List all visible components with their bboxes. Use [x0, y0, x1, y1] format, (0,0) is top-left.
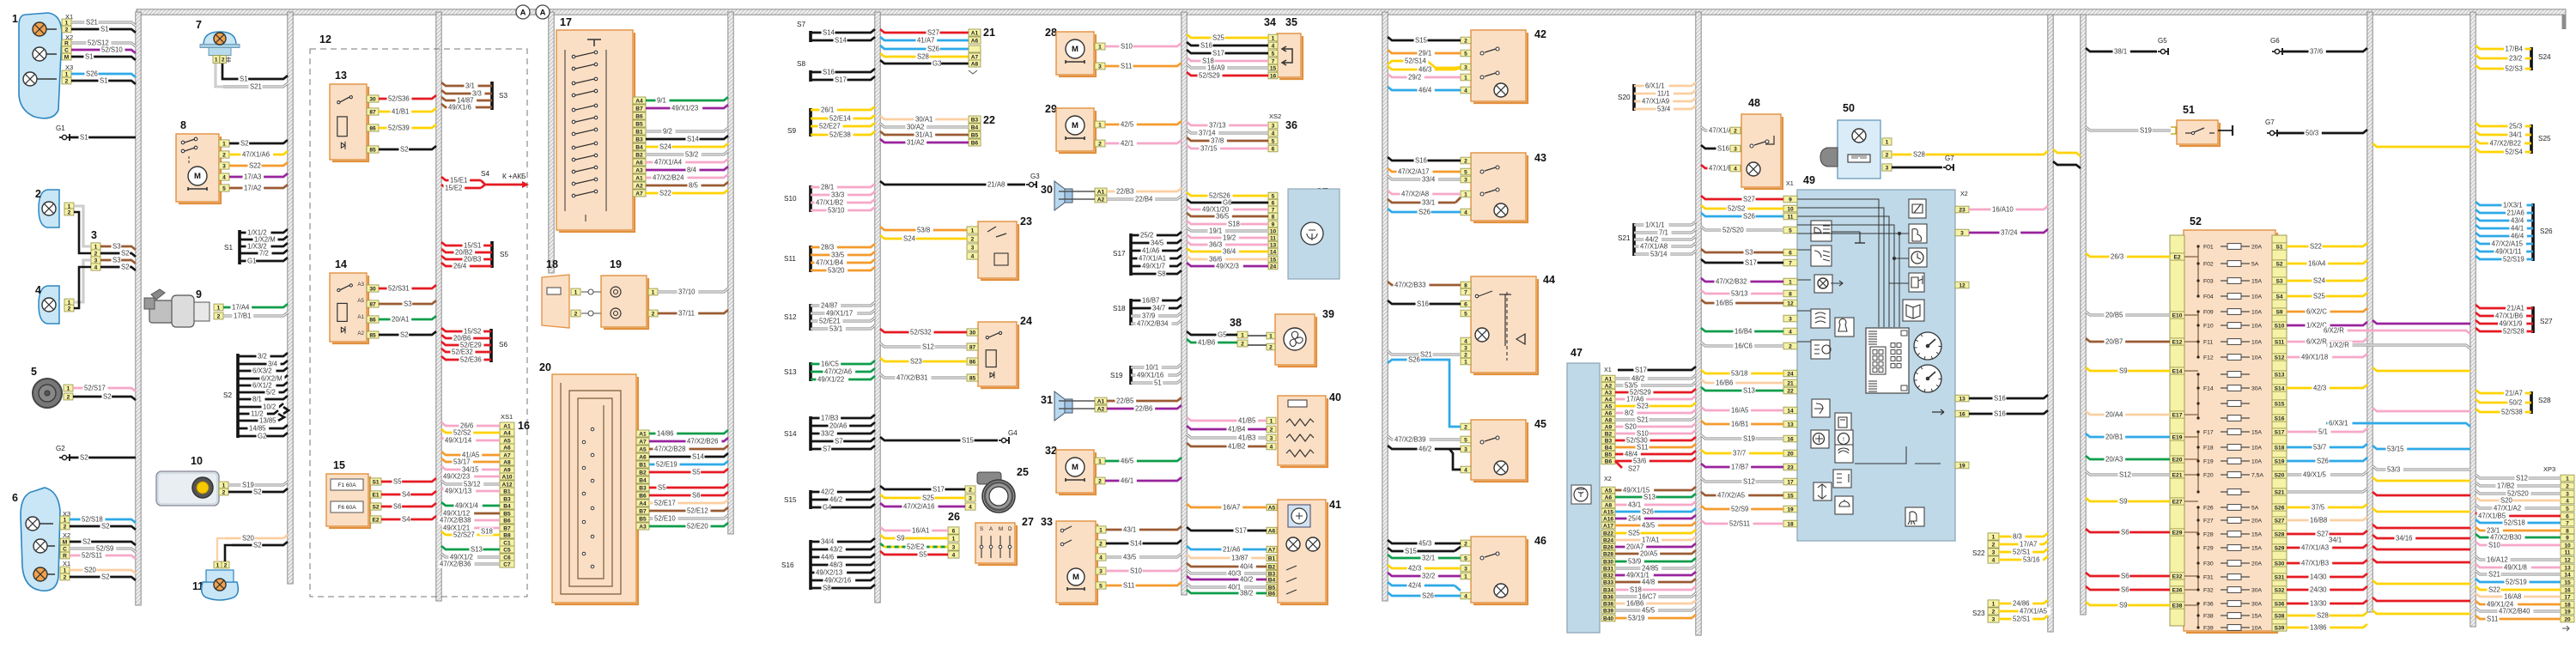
- svg-text:47/X1/A9: 47/X1/A9: [1642, 98, 1669, 106]
- svg-text:X1: X1: [1786, 179, 1794, 187]
- svg-text:25: 25: [1017, 466, 1029, 478]
- svg-text:2: 2: [1098, 141, 1102, 147]
- svg-text:37/11: 37/11: [678, 310, 695, 318]
- svg-text:F11: F11: [2203, 340, 2213, 346]
- svg-text:46/2: 46/2: [1419, 446, 1431, 453]
- svg-text:52/S20: 52/S20: [1722, 227, 1744, 234]
- svg-text:A6: A6: [1605, 494, 1613, 500]
- svg-text:S16: S16: [1417, 300, 1429, 308]
- svg-text:1: 1: [64, 567, 67, 573]
- svg-text:S15: S15: [1405, 548, 1418, 555]
- svg-text:7: 7: [1464, 289, 1467, 295]
- svg-text:34/7: 34/7: [1152, 305, 1165, 312]
- svg-text:11: 11: [2565, 549, 2571, 555]
- svg-text:S25: S25: [922, 494, 935, 502]
- svg-text:4: 4: [1789, 329, 1792, 335]
- svg-text:47/X2/A17: 47/X2/A17: [1398, 168, 1429, 176]
- svg-text:M: M: [1072, 121, 1078, 130]
- svg-text:26: 26: [948, 511, 960, 523]
- svg-text:47/X1/A3: 47/X1/A3: [2301, 544, 2329, 552]
- svg-text:20A: 20A: [2251, 561, 2263, 567]
- svg-text:53/10: 53/10: [828, 207, 845, 215]
- svg-text:47/X1/B2: 47/X1/B2: [816, 199, 843, 207]
- svg-text:16/A1: 16/A1: [912, 527, 929, 535]
- svg-text:4: 4: [1464, 593, 1467, 599]
- svg-text:9/1: 9/1: [657, 97, 666, 105]
- svg-text:46/1: 46/1: [1121, 477, 1133, 485]
- svg-text:S28: S28: [2317, 612, 2329, 620]
- svg-text:B2: B2: [635, 152, 643, 158]
- svg-text:52/S28: 52/S28: [2503, 328, 2524, 336]
- svg-text:17/B1: 17/B1: [234, 312, 251, 320]
- svg-text:G7: G7: [2265, 118, 2275, 126]
- svg-text:46/5: 46/5: [1121, 458, 1134, 465]
- svg-text:!: !: [1843, 437, 1844, 443]
- svg-text:S17: S17: [933, 486, 945, 494]
- svg-text:52/S3: 52/S3: [2506, 65, 2523, 73]
- svg-text:52/S10: 52/S10: [101, 46, 123, 54]
- svg-text:2: 2: [35, 188, 41, 200]
- svg-text:41/A6: 41/A6: [1142, 247, 1159, 255]
- svg-text:13: 13: [2564, 565, 2571, 571]
- svg-text:B5: B5: [1605, 452, 1613, 458]
- svg-text:S4: S4: [402, 516, 410, 524]
- svg-text:A2: A2: [357, 331, 364, 337]
- svg-text:17/A3: 17/A3: [244, 173, 261, 181]
- svg-text:4: 4: [1464, 467, 1467, 473]
- svg-text:5/2: 5/2: [266, 389, 276, 397]
- svg-text:9: 9: [196, 288, 202, 300]
- svg-text:20A: 20A: [2251, 245, 2263, 251]
- svg-text:X2: X2: [1960, 190, 1968, 197]
- svg-text:S2: S2: [101, 523, 110, 531]
- svg-text:S14: S14: [823, 29, 835, 37]
- svg-text:S14: S14: [2275, 385, 2285, 391]
- svg-text:1: 1: [65, 71, 69, 77]
- svg-text:3: 3: [1734, 146, 1737, 152]
- svg-text:13/86: 13/86: [2310, 624, 2327, 632]
- svg-text:30: 30: [969, 330, 976, 336]
- svg-text:7: 7: [2566, 520, 2569, 526]
- svg-text:9: 9: [1272, 221, 1275, 227]
- svg-text:47/X2/B28: 47/X2/B28: [654, 446, 685, 453]
- svg-text:S20: S20: [1625, 423, 1637, 431]
- svg-text:39: 39: [1322, 308, 1334, 320]
- svg-text:20/A3: 20/A3: [2105, 456, 2123, 464]
- svg-text:S1: S1: [240, 76, 248, 83]
- svg-text:B4: B4: [971, 124, 979, 130]
- svg-text:S15: S15: [2275, 401, 2285, 407]
- svg-text:S26: S26: [2275, 505, 2285, 511]
- svg-text:S6: S6: [499, 341, 507, 349]
- svg-text:К +АКБ: К +АКБ: [502, 173, 526, 180]
- svg-text:A8: A8: [503, 459, 511, 465]
- svg-text:S19: S19: [1743, 435, 1755, 443]
- svg-text:A15: A15: [1603, 509, 1613, 515]
- svg-text:15: 15: [1787, 493, 1794, 499]
- svg-text:49/X1/6: 49/X1/6: [448, 104, 471, 112]
- svg-text:S28: S28: [2275, 531, 2285, 537]
- svg-text:F39: F39: [2203, 626, 2214, 632]
- svg-text:20/A4: 20/A4: [2105, 411, 2123, 419]
- svg-text:B28: B28: [1603, 551, 1613, 557]
- svg-text:2: 2: [222, 152, 226, 158]
- svg-text:53/20: 53/20: [828, 267, 845, 275]
- svg-text:47/X1/B3: 47/X1/B3: [2301, 560, 2329, 567]
- svg-text:G4: G4: [823, 504, 832, 512]
- svg-text:S11: S11: [1121, 63, 1132, 70]
- svg-text:17/B7: 17/B7: [1731, 464, 1748, 471]
- svg-text:42/3: 42/3: [1408, 565, 1421, 573]
- svg-text:S18: S18: [1228, 221, 1240, 228]
- svg-text:16/A4: 16/A4: [2308, 260, 2326, 268]
- svg-text:X1: X1: [1604, 366, 1612, 373]
- svg-text:16/A8: 16/A8: [2504, 593, 2521, 601]
- svg-text:B31: B31: [1603, 566, 1613, 572]
- svg-text:3: 3: [1099, 568, 1103, 574]
- svg-text:F29: F29: [2203, 546, 2214, 552]
- svg-text:26/1: 26/1: [821, 106, 834, 114]
- svg-text:22/B3: 22/B3: [1116, 188, 1133, 196]
- svg-text:S22: S22: [659, 190, 671, 197]
- svg-text:S11: S11: [2275, 339, 2285, 345]
- svg-text:16/B6: 16/B6: [1716, 379, 1733, 387]
- svg-text:A1: A1: [635, 175, 643, 181]
- svg-text:6/X2/C: 6/X2/C: [2306, 308, 2327, 316]
- svg-text:14/30: 14/30: [2310, 573, 2327, 581]
- svg-text:8/5: 8/5: [689, 182, 699, 190]
- svg-text:85: 85: [969, 375, 976, 381]
- svg-text:34/1: 34/1: [2509, 131, 2522, 139]
- svg-text:1: 1: [1464, 191, 1467, 197]
- svg-text:1: 1: [215, 57, 218, 63]
- svg-text:43/5: 43/5: [1642, 522, 1656, 530]
- svg-text:6: 6: [1464, 301, 1467, 307]
- svg-text:16/B7: 16/B7: [1142, 297, 1159, 305]
- svg-text:16/B8: 16/B8: [2310, 517, 2327, 525]
- svg-text:S6: S6: [2121, 529, 2129, 537]
- svg-text:A6: A6: [1605, 410, 1613, 416]
- svg-text:A2: A2: [1097, 406, 1105, 412]
- svg-text:28: 28: [1045, 27, 1057, 39]
- svg-text:G3: G3: [1030, 173, 1040, 180]
- svg-text:20/A5: 20/A5: [1640, 550, 1658, 558]
- svg-text:5A: 5A: [2251, 506, 2259, 512]
- svg-text:M: M: [999, 526, 1003, 532]
- svg-text:3: 3: [1960, 230, 1964, 236]
- svg-text:3: 3: [1464, 345, 1467, 351]
- svg-text:13: 13: [335, 70, 347, 82]
- svg-text:B3: B3: [639, 485, 647, 491]
- svg-text:E32: E32: [2172, 573, 2183, 579]
- svg-text:15A: 15A: [2251, 430, 2263, 436]
- svg-text:S14: S14: [687, 136, 700, 143]
- svg-text:S23: S23: [910, 358, 922, 366]
- svg-text:S10: S10: [1130, 567, 1143, 575]
- svg-text:46: 46: [1534, 535, 1546, 547]
- svg-text:28/3: 28/3: [821, 244, 834, 252]
- svg-text:S28: S28: [1913, 151, 1925, 159]
- svg-text:A2: A2: [635, 183, 643, 189]
- svg-text:A4: A4: [639, 500, 647, 506]
- svg-text:6: 6: [1789, 250, 1792, 256]
- svg-text:18: 18: [1787, 521, 1794, 527]
- svg-text:52/S32: 52/S32: [910, 329, 932, 337]
- svg-text:S: S: [980, 526, 983, 532]
- svg-text:A1: A1: [503, 423, 511, 429]
- svg-text:S27: S27: [2317, 531, 2329, 538]
- svg-text:S10: S10: [1121, 43, 1133, 51]
- svg-text:S2: S2: [121, 264, 130, 271]
- svg-text:52/S19: 52/S19: [2506, 579, 2527, 586]
- svg-text:S17: S17: [835, 76, 847, 84]
- svg-text:A7: A7: [639, 439, 647, 445]
- svg-text:S19: S19: [2140, 127, 2152, 135]
- svg-text:B3: B3: [635, 136, 643, 143]
- svg-text:6/X2/R: 6/X2/R: [2324, 327, 2344, 335]
- svg-text:17/B4: 17/B4: [2506, 45, 2524, 53]
- svg-text:B4: B4: [635, 144, 643, 150]
- svg-text:52/S31: 52/S31: [388, 285, 410, 293]
- svg-text:49/X2/23: 49/X2/23: [443, 473, 470, 481]
- svg-text:1: 1: [1098, 44, 1102, 50]
- svg-text:3: 3: [1886, 165, 1889, 171]
- svg-text:35: 35: [1285, 16, 1297, 28]
- svg-text:42/5: 42/5: [1121, 121, 1134, 129]
- svg-text:49/X1/18: 49/X1/18: [2301, 354, 2328, 361]
- svg-text:1: 1: [1992, 534, 1996, 540]
- svg-text:45: 45: [1534, 418, 1546, 430]
- svg-text:15A: 15A: [2251, 532, 2263, 538]
- svg-text:3: 3: [1270, 435, 1273, 441]
- svg-text:7: 7: [1272, 207, 1275, 213]
- svg-text:34/1: 34/1: [2329, 537, 2342, 544]
- svg-text:53/17: 53/17: [453, 458, 471, 466]
- svg-text:34/5: 34/5: [1151, 240, 1164, 247]
- svg-text:52/E17: 52/E17: [654, 500, 676, 507]
- svg-text:2: 2: [1464, 38, 1467, 44]
- svg-text:10A: 10A: [2251, 324, 2263, 330]
- svg-text:S9: S9: [2275, 309, 2282, 315]
- svg-text:1/X1/1: 1/X1/1: [1645, 221, 1665, 229]
- svg-text:4: 4: [971, 253, 975, 259]
- svg-text:S21: S21: [1420, 351, 1432, 359]
- svg-text:6: 6: [1272, 146, 1275, 152]
- svg-text:A5: A5: [639, 446, 647, 452]
- svg-text:A: A: [540, 9, 546, 18]
- svg-text:13: 13: [1270, 242, 1277, 248]
- svg-text:A5: A5: [1605, 403, 1613, 409]
- svg-text:G5: G5: [1218, 331, 1227, 339]
- svg-text:52: 52: [2190, 215, 2202, 227]
- svg-text:S3: S3: [499, 92, 507, 100]
- svg-text:A1: A1: [1097, 398, 1105, 404]
- svg-text:42/3: 42/3: [2313, 385, 2326, 392]
- svg-text:G2: G2: [258, 433, 266, 440]
- svg-text:1: 1: [64, 517, 67, 523]
- svg-text:B22: B22: [1603, 531, 1613, 537]
- svg-text:7: 7: [196, 19, 202, 31]
- svg-text:53/6: 53/6: [1633, 458, 1646, 465]
- svg-text:36/5: 36/5: [1216, 213, 1230, 221]
- svg-text:20/A6: 20/A6: [829, 422, 847, 430]
- svg-text:A6: A6: [971, 38, 979, 44]
- svg-text:S1: S1: [100, 26, 109, 33]
- svg-text:52/S38: 52/S38: [2501, 409, 2523, 416]
- svg-text:30A: 30A: [2251, 588, 2263, 594]
- svg-text:16/A12: 16/A12: [2487, 556, 2508, 564]
- svg-text:49: 49: [1803, 174, 1815, 186]
- svg-text:10A: 10A: [2251, 446, 2263, 452]
- svg-text:38: 38: [1230, 317, 1242, 329]
- svg-text:52/S1: 52/S1: [2013, 549, 2030, 556]
- svg-text:16/B1: 16/B1: [1731, 421, 1748, 428]
- svg-text:S26: S26: [1408, 356, 1420, 364]
- svg-text:8: 8: [2566, 528, 2569, 534]
- svg-text:G5: G5: [2158, 37, 2167, 45]
- svg-text:49/X1/7: 49/X1/7: [1142, 263, 1165, 270]
- svg-text:2: 2: [94, 251, 98, 257]
- svg-text:52/S11: 52/S11: [82, 552, 102, 560]
- svg-text:2: 2: [1992, 542, 1996, 548]
- svg-text:S17: S17: [1113, 250, 1126, 258]
- svg-text:3: 3: [1992, 549, 1996, 555]
- svg-text:A7: A7: [503, 452, 511, 458]
- svg-text:6/X3/2: 6/X3/2: [252, 367, 272, 375]
- svg-text:86: 86: [369, 125, 376, 131]
- svg-text:52/S14: 52/S14: [1405, 58, 1426, 65]
- svg-text:7: 7: [1272, 58, 1275, 64]
- svg-text:41/B4: 41/B4: [1228, 426, 1246, 434]
- svg-text:F20: F20: [2203, 473, 2214, 479]
- svg-text:B24: B24: [1603, 537, 1613, 543]
- svg-text:9: 9: [2566, 535, 2569, 541]
- svg-text:S11: S11: [1637, 444, 1648, 452]
- svg-text:A16: A16: [1603, 516, 1613, 522]
- svg-text:A12: A12: [501, 482, 512, 488]
- svg-text:A9: A9: [1605, 424, 1613, 430]
- svg-text:3: 3: [222, 163, 226, 169]
- svg-text:8: 8: [1464, 282, 1467, 288]
- svg-text:47/X2/B40: 47/X2/B40: [2499, 608, 2530, 616]
- svg-text:S3: S3: [2275, 278, 2282, 284]
- svg-text:20: 20: [539, 361, 551, 373]
- svg-text:85: 85: [369, 147, 376, 153]
- svg-text:S13: S13: [2275, 372, 2285, 378]
- svg-text:18: 18: [546, 258, 558, 270]
- svg-text:1: 1: [12, 13, 18, 25]
- svg-text:G1: G1: [247, 258, 256, 265]
- svg-text:2: 2: [65, 27, 69, 33]
- svg-text:41/A7: 41/A7: [917, 37, 934, 45]
- svg-text:1: 1: [2566, 476, 2569, 482]
- svg-text:5/1: 5/1: [2318, 428, 2328, 436]
- svg-text:43/2: 43/2: [829, 546, 842, 554]
- svg-text:F6 60A: F6 60A: [337, 505, 356, 511]
- svg-text:B4: B4: [1605, 445, 1613, 451]
- svg-text:52/S2: 52/S2: [1728, 205, 1745, 213]
- svg-text:15/E1: 15/E1: [450, 177, 467, 185]
- svg-text:1/X2/R: 1/X2/R: [2329, 342, 2349, 349]
- svg-text:A2: A2: [1605, 383, 1613, 389]
- svg-text:19: 19: [610, 258, 622, 270]
- svg-text:21/A7: 21/A7: [2506, 390, 2523, 397]
- svg-text:B2: B2: [1268, 564, 1276, 570]
- svg-text:1: 1: [952, 536, 956, 542]
- svg-text:B2: B2: [639, 470, 647, 476]
- svg-text:86: 86: [369, 317, 376, 323]
- svg-text:12: 12: [319, 33, 331, 45]
- svg-text:1: 1: [1886, 139, 1889, 145]
- svg-text:S9: S9: [2119, 602, 2128, 610]
- svg-text:16/B5: 16/B5: [1716, 300, 1734, 307]
- svg-text:S26: S26: [2317, 458, 2329, 465]
- svg-text:1: 1: [1992, 601, 1996, 607]
- svg-text:53/15: 53/15: [2387, 446, 2404, 453]
- svg-text:16/B4: 16/B4: [1735, 328, 1753, 336]
- svg-text:47/X2/B31: 47/X2/B31: [896, 374, 927, 382]
- svg-text:51: 51: [2183, 104, 2195, 116]
- svg-text:A5: A5: [1605, 488, 1613, 494]
- svg-text:C5: C5: [503, 547, 511, 553]
- svg-text:19: 19: [2564, 609, 2571, 615]
- svg-text:S1: S1: [100, 77, 108, 85]
- svg-text:8: 8: [1789, 291, 1792, 297]
- svg-text:14: 14: [335, 258, 347, 270]
- svg-text:2: 2: [1992, 609, 1996, 615]
- svg-text:S12: S12: [1743, 478, 1755, 486]
- svg-text:53/13: 53/13: [1731, 290, 1748, 298]
- svg-text:2: 2: [2566, 483, 2569, 489]
- svg-text:29/2: 29/2: [1408, 74, 1421, 82]
- svg-text:12: 12: [1959, 282, 1965, 288]
- svg-text:A5: A5: [357, 298, 364, 304]
- svg-text:32/1: 32/1: [1422, 555, 1435, 562]
- svg-text:A1: A1: [357, 314, 364, 320]
- svg-text:2: 2: [1464, 352, 1467, 358]
- svg-text:10A: 10A: [2251, 626, 2263, 632]
- svg-text:53/7: 53/7: [2313, 444, 2326, 452]
- svg-text:52/S18: 52/S18: [82, 516, 103, 524]
- svg-text:1: 1: [1464, 359, 1467, 365]
- svg-text:S9: S9: [2119, 498, 2128, 506]
- svg-text:47/X1/A2: 47/X1/A2: [2494, 505, 2521, 513]
- svg-text:45/3: 45/3: [1419, 540, 1431, 548]
- svg-text:2: 2: [222, 489, 226, 495]
- svg-text:47/X2/A5: 47/X2/A5: [1717, 492, 1746, 500]
- svg-text:B6: B6: [1268, 591, 1276, 597]
- svg-text:31/A1: 31/A1: [915, 131, 933, 139]
- svg-text:15A: 15A: [2251, 279, 2263, 285]
- svg-text:1: 1: [1098, 122, 1102, 128]
- svg-text:S15: S15: [962, 437, 975, 445]
- svg-text:8/4: 8/4: [687, 167, 697, 174]
- svg-text:17/B3: 17/B3: [821, 415, 838, 422]
- svg-text:3/3: 3/3: [472, 90, 482, 98]
- svg-text:B6: B6: [635, 113, 643, 119]
- svg-text:A8: A8: [1605, 502, 1613, 508]
- svg-text:S22: S22: [249, 162, 261, 170]
- svg-text:6: 6: [952, 528, 956, 534]
- svg-text:F30: F30: [2203, 561, 2214, 567]
- svg-text:41/B1: 41/B1: [392, 108, 409, 116]
- svg-text:S26: S26: [86, 70, 98, 78]
- svg-text:5A: 5A: [2251, 262, 2259, 268]
- svg-text:S22: S22: [2310, 243, 2322, 251]
- svg-text:47/X1/A5: 47/X1/A5: [2020, 608, 2048, 616]
- svg-text:14: 14: [1787, 408, 1794, 414]
- svg-text:16: 16: [2564, 587, 2571, 593]
